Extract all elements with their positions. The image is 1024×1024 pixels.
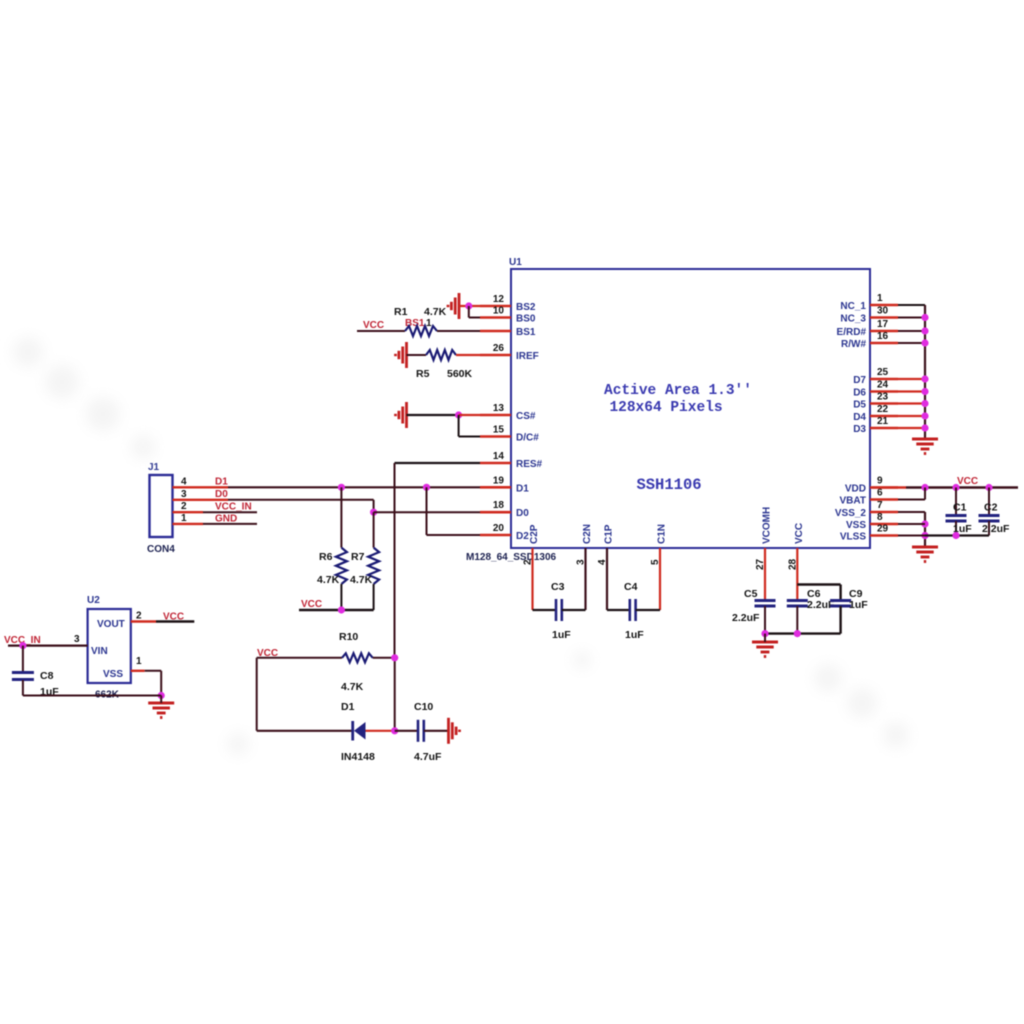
wire pin 17 to bus	[898, 330, 925, 332]
svg-text:2: 2	[136, 611, 142, 622]
svg-text:24: 24	[877, 380, 889, 391]
ground for VCOMH caps	[752, 642, 778, 657]
wire VDD rail to VCC	[872, 486, 906, 489]
wire R5 to IREF pin 26	[456, 354, 480, 356]
U1 pin 23 (D5) stub	[870, 402, 898, 405]
junction bus 21	[921, 424, 928, 431]
U2 pin 2 VOUT stub	[131, 620, 156, 622]
junction D1/D2 branch	[423, 484, 430, 491]
capacitor C9	[830, 599, 851, 602]
svg-text:19: 19	[493, 475, 505, 486]
wire BS2 to ground	[459, 305, 480, 307]
capacitor C8	[22, 646, 24, 672]
svg-text:M128_64_SSD1306: M128_64_SSD1306	[466, 552, 557, 563]
junction BS2 node	[465, 302, 472, 309]
wire VCC to R1	[357, 330, 405, 332]
ground for C10	[449, 718, 460, 744]
connector J1 body	[150, 475, 173, 537]
IC U1 SSH1106 body	[511, 269, 870, 548]
junction diode/C10/RES#	[391, 727, 398, 734]
svg-text:NC_1: NC_1	[840, 301, 866, 312]
U1 pin 29 (VLSS) stub	[870, 534, 898, 537]
capacitor C1	[955, 488, 957, 516]
wire CS# node down to D/C# pin 15	[458, 415, 460, 437]
svg-text:C5: C5	[744, 588, 758, 600]
svg-text:D2: D2	[516, 531, 529, 542]
U1 pin 19 (D1) stub	[480, 486, 511, 489]
ground for BS2/BS0	[448, 293, 459, 319]
svg-text:VSS_2: VSS_2	[835, 508, 867, 519]
wire diode to RES# node	[366, 730, 395, 732]
junction VSS	[921, 520, 928, 527]
svg-text:4: 4	[181, 476, 187, 487]
svg-text:30: 30	[877, 306, 889, 317]
svg-text:20: 20	[493, 523, 505, 534]
junction VDD rail at bus	[921, 484, 928, 491]
svg-text:3: 3	[74, 634, 80, 645]
svg-text:NC_3: NC_3	[840, 314, 866, 325]
U1 pin 18 (D0) stub	[480, 511, 511, 514]
resistor R1	[405, 326, 437, 336]
svg-text:VOUT: VOUT	[97, 619, 125, 630]
svg-text:2.2uF: 2.2uF	[732, 612, 760, 624]
capacitor C5	[755, 599, 776, 602]
wire C1P pin 4 down	[606, 548, 608, 610]
svg-text:R6: R6	[319, 551, 333, 563]
wire C5/C6/C9 bottoms	[765, 632, 841, 634]
svg-text:VDD: VDD	[845, 484, 866, 495]
svg-text:SSH1106: SSH1106	[636, 476, 701, 494]
junction C1 top	[952, 484, 959, 491]
svg-text:C10: C10	[414, 701, 433, 713]
svg-text:VIN: VIN	[91, 646, 108, 657]
svg-text:VLSS: VLSS	[840, 532, 866, 543]
wire D0 jog down	[373, 500, 375, 512]
U1 pin 10 (BS0) stub	[480, 316, 511, 319]
svg-text:C1P: C1P	[604, 524, 615, 544]
junction CS# node	[455, 411, 462, 418]
junction D0/R7	[370, 509, 377, 516]
svg-text:1uF: 1uF	[552, 629, 571, 641]
capacitor C6	[787, 599, 808, 602]
junction bus 24	[921, 388, 928, 395]
U1 pin 15 (D/C#) stub	[480, 435, 511, 438]
ground for VSS	[912, 547, 938, 562]
U1 pin 22 (D4) stub	[870, 415, 898, 418]
wire data pin 23 to bus	[898, 402, 925, 404]
svg-text:1: 1	[877, 293, 883, 304]
svg-text:22: 22	[877, 404, 889, 415]
U2 pin 3 VIN wire / VCC_IN net	[8, 644, 88, 646]
svg-text:128x64 Pixels: 128x64 Pixels	[609, 400, 722, 416]
regulator U2 body	[88, 609, 131, 683]
junction D1/R6	[338, 484, 345, 491]
svg-text:IREF: IREF	[516, 351, 539, 362]
ground for NC/data bus	[912, 439, 938, 454]
svg-text:13: 13	[493, 403, 505, 414]
U1 pin 8 (VSS) stub	[870, 523, 898, 526]
svg-text:15: 15	[493, 425, 505, 436]
capacitor C4	[607, 609, 630, 611]
wire RES# vertical down to D1/C10 node	[394, 658, 396, 731]
svg-text:4.7K: 4.7K	[341, 681, 364, 693]
U1 pin 6 (VBAT) stub	[870, 498, 898, 501]
junction C5 bottom	[761, 630, 768, 637]
wire VLSS to bus	[898, 535, 925, 537]
wire data pin 21 to bus	[898, 427, 925, 429]
capacitor C3	[533, 609, 557, 611]
svg-text:17: 17	[877, 319, 889, 330]
svg-text:10: 10	[493, 306, 505, 317]
svg-text:C2N: C2N	[582, 524, 593, 544]
svg-text:12: 12	[493, 294, 505, 305]
svg-text:2.2uF: 2.2uF	[982, 523, 1010, 535]
faint watermark	[13, 337, 909, 755]
U1 pin 1 (NC_1) stub	[870, 304, 898, 307]
U1 pin 25 (D7) stub	[870, 378, 898, 381]
svg-text:D1: D1	[516, 483, 529, 494]
wire C2P pin 2 down	[531, 548, 533, 610]
svg-text:D4: D4	[853, 412, 866, 423]
U1 pin 13 (CS#) stub	[480, 414, 511, 417]
wire C10 to ground	[424, 730, 449, 732]
wire data pin 22 to bus	[898, 415, 925, 417]
wire VBAT up to VDD rail	[898, 499, 925, 501]
svg-text:BS0: BS0	[516, 314, 536, 325]
svg-text:C8: C8	[40, 670, 54, 682]
U1 pin 17 (E/RD#) stub	[870, 330, 898, 333]
svg-text:18: 18	[493, 500, 505, 511]
wire R10 to RES# node	[373, 657, 395, 659]
junction bus 30	[921, 314, 928, 321]
junction R6/VCC	[338, 606, 345, 613]
svg-text:R7: R7	[351, 551, 365, 563]
wire pin 30 to bus	[898, 317, 925, 319]
U1 pin 16 (R/W#) stub	[870, 342, 898, 345]
wire VCC down left side of reset circuit	[256, 658, 258, 731]
svg-text:BS2: BS2	[516, 302, 536, 313]
wire D0 net from J1	[203, 499, 228, 501]
svg-text:BS1: BS1	[516, 327, 536, 338]
svg-text:2: 2	[181, 501, 187, 512]
wire VSS to ground node	[145, 670, 162, 672]
svg-text:D0: D0	[215, 489, 228, 500]
bus vertical VSS to ground	[924, 512, 926, 547]
U1 pin 12 (BS2) stub	[480, 305, 511, 308]
wire data pin 25 to bus	[898, 378, 925, 380]
svg-text:1: 1	[181, 513, 187, 524]
wire VCC to R10	[257, 657, 342, 659]
svg-text:14: 14	[493, 451, 505, 462]
svg-text:D0: D0	[516, 508, 529, 519]
svg-text:D1: D1	[215, 477, 228, 488]
wire C8 to U2 ground node	[23, 695, 161, 697]
junction R10/RES#	[391, 654, 398, 661]
wire C2N pin 3 down	[584, 548, 586, 610]
junction bus 22	[921, 412, 928, 419]
wire D1 net J1 to U1 pin 19	[203, 486, 228, 488]
svg-text:D/C#: D/C#	[516, 433, 539, 444]
J1 pin 3 stub	[173, 499, 204, 501]
svg-text:29: 29	[877, 524, 889, 535]
junction bus 23	[921, 400, 928, 407]
wire VCC_IN stub	[203, 511, 257, 513]
wire RES# vertical down to R10 node	[394, 463, 396, 658]
wire VSS to bus	[898, 523, 925, 525]
capacitor C10	[417, 720, 420, 742]
svg-text:R/W#: R/W#	[841, 339, 866, 350]
svg-text:D6: D6	[853, 388, 866, 399]
svg-text:R5: R5	[416, 368, 430, 380]
junction bus 25	[921, 375, 928, 382]
junction C6 bottom	[794, 630, 801, 637]
wire VCC branch to C9	[797, 583, 840, 585]
junction VSS/C8 ground node	[158, 692, 165, 699]
wire R1 to BS1 pin 11	[437, 330, 480, 332]
wire ground to R5	[407, 354, 427, 356]
junction VLSS	[921, 532, 928, 539]
svg-text:D5: D5	[853, 400, 866, 411]
svg-text:7: 7	[877, 500, 883, 511]
junction C1 bottom	[952, 532, 959, 539]
svg-text:6: 6	[877, 488, 883, 499]
wire pin 16 to bus	[898, 342, 925, 344]
wire to diode anode	[257, 730, 353, 732]
svg-text:8: 8	[877, 512, 883, 523]
svg-text:23: 23	[877, 392, 889, 403]
U1 pin 11 (BS1) stub	[480, 330, 511, 333]
svg-text:RES#: RES#	[516, 459, 543, 470]
U1 pin 21 (D3) stub	[870, 427, 898, 430]
wire VSS_2 to bus	[898, 511, 925, 513]
svg-text:IN4148: IN4148	[341, 751, 375, 763]
wire ground to CS# node	[407, 414, 459, 416]
resistor R10	[342, 653, 373, 662]
svg-text:26: 26	[493, 343, 505, 354]
wire RES# node to C10	[395, 730, 418, 732]
svg-text:21: 21	[877, 416, 889, 427]
svg-text:3: 3	[181, 489, 187, 500]
diode D1 IN4148	[351, 721, 354, 741]
junction VCC_IN/C8	[19, 642, 26, 649]
svg-text:C2P: C2P	[529, 524, 540, 544]
resistor R7	[373, 512, 375, 547]
wire D0 to U1 pin 18	[374, 511, 480, 513]
svg-text:U1: U1	[509, 257, 522, 268]
resistor R5	[426, 350, 456, 360]
svg-text:C4: C4	[624, 581, 638, 593]
wire NC_1 to bus	[898, 304, 925, 306]
U1 pin 14 (RES#) stub	[480, 462, 511, 465]
wire C1/C2 bottoms to VSS bus	[925, 534, 989, 536]
svg-text:CS#: CS#	[516, 411, 536, 422]
svg-text:VCC: VCC	[794, 523, 805, 544]
svg-text:GND: GND	[215, 514, 237, 525]
ground for U2	[148, 703, 174, 718]
svg-text:CON4: CON4	[147, 544, 175, 555]
svg-text:J1: J1	[148, 462, 160, 473]
svg-text:1uF: 1uF	[849, 599, 868, 611]
svg-text:25: 25	[877, 367, 889, 378]
wire GND stub	[203, 523, 257, 525]
svg-text:VCC: VCC	[301, 599, 322, 610]
svg-text:9: 9	[877, 476, 883, 487]
junction C2 top	[985, 484, 992, 491]
svg-text:C3: C3	[551, 581, 565, 593]
wire D1 branch down to D2 pin 20	[426, 487, 428, 535]
svg-text:D7: D7	[853, 375, 866, 386]
wire VCC pin 28 down	[796, 548, 798, 601]
ground for R5 IREF	[396, 342, 407, 368]
svg-text:VCC: VCC	[363, 320, 384, 331]
svg-text:VSS: VSS	[103, 669, 123, 680]
svg-text:C1N: C1N	[657, 524, 668, 544]
wire data pin 24 to bus	[898, 390, 925, 392]
wire VCOMH pin 27 down	[764, 548, 766, 601]
svg-text:VCC: VCC	[957, 476, 978, 487]
U1 pin 7 (VSS_2) stub	[870, 511, 898, 514]
junction bus 17	[921, 327, 928, 334]
svg-text:Active Area 1.3'': Active Area 1.3''	[604, 383, 752, 399]
svg-text:E/RD#: E/RD#	[837, 327, 867, 338]
svg-text:16: 16	[877, 331, 889, 342]
ground for CS#	[396, 402, 407, 428]
U1 pin 9 (VDD) stub	[870, 486, 898, 489]
svg-text:1uF: 1uF	[625, 629, 644, 641]
svg-text:D3: D3	[853, 424, 866, 435]
U1 pin 24 (D6) stub	[870, 390, 898, 393]
svg-text:4.7K: 4.7K	[424, 306, 447, 318]
svg-text:U2: U2	[87, 595, 100, 606]
J1 pin 1 stub	[173, 523, 204, 525]
U2 pin 1 VSS stub	[131, 670, 145, 672]
svg-text:C2: C2	[984, 502, 998, 514]
svg-text:R1: R1	[394, 306, 408, 318]
wire C1N pin 5 down	[659, 548, 661, 610]
svg-text:D1: D1	[341, 701, 355, 713]
U1 pin 20 (D2) stub	[480, 534, 511, 537]
svg-text:R10: R10	[339, 631, 358, 643]
U1 pin 30 (NC_3) stub	[870, 316, 898, 319]
wire VCC rail under R6/R7	[299, 609, 374, 611]
J1 pin 2 stub	[173, 511, 204, 513]
svg-text:4.7K: 4.7K	[317, 574, 340, 586]
junction bus 16	[921, 339, 928, 346]
svg-text:560K: 560K	[447, 368, 473, 380]
svg-text:1: 1	[426, 318, 432, 329]
svg-text:C1: C1	[953, 502, 967, 514]
svg-text:VCC_IN: VCC_IN	[215, 502, 252, 513]
wire BS2 node down to BS0	[468, 306, 470, 318]
wire RES# pin 14 horizontal	[395, 462, 481, 464]
bus vertical NC/data to ground	[924, 305, 926, 439]
capacitor C2	[988, 488, 990, 516]
svg-text:VCOMH: VCOMH	[762, 507, 773, 544]
U1 pin 26 (IREF) stub	[480, 354, 511, 357]
wire CS# node to pin 13	[459, 414, 480, 416]
resistor R6	[340, 487, 342, 547]
svg-text:1: 1	[136, 656, 142, 667]
wire VCC from U2	[156, 620, 194, 623]
svg-text:4.7K: 4.7K	[350, 574, 373, 586]
svg-text:VBAT: VBAT	[840, 496, 866, 507]
svg-text:4.7uF: 4.7uF	[414, 751, 442, 763]
svg-text:VSS: VSS	[846, 520, 866, 531]
J1 pin 4 stub	[173, 486, 204, 488]
